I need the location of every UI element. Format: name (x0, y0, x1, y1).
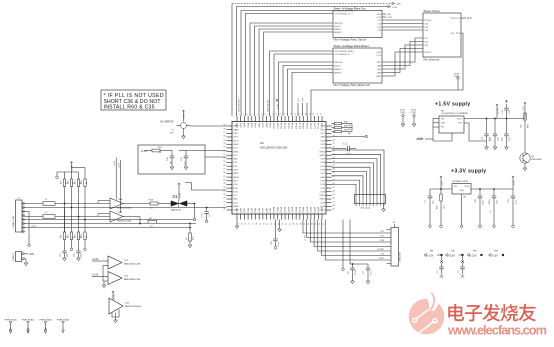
svg-text:+VCC26V0000_PWR_2: +VCC26V0000_PWR_2 (334, 10, 354, 12)
svg-text:+1.5V: +1.5V (427, 254, 434, 257)
svg-text:+3.3V: +3.3V (514, 180, 516, 186)
FPGA U2 body (232, 122, 326, 215)
cap C10 supply (494, 119, 496, 135)
cap C7 supply2 (429, 189, 431, 196)
caps C4 C6 under U2 (343, 220, 368, 269)
gate connector SG block (355, 195, 386, 204)
svg-text:+1.5V: +1.5V (392, 7, 398, 9)
svg-text:C10: C10 (498, 136, 500, 141)
svg-text:C1G: C1G (377, 27, 381, 29)
+3.3V supply rail (430, 188, 452, 190)
U9 left pin stubs (433, 119, 439, 142)
svg-text:OUT_TP16: OUT_TP16 (450, 33, 460, 35)
svg-text:79: 79 (223, 198, 225, 200)
svg-text:C11: C11 (482, 136, 484, 140)
svg-text:IO17A: IO17A (299, 122, 302, 129)
oscillator +3.3V flag (182, 110, 184, 113)
svg-text:VMV1: VMV1 (319, 151, 326, 153)
svg-text:6: 6 (254, 114, 256, 115)
svg-text:AMDLP2310DM: AMDLP2310DM (125, 305, 141, 308)
svg-text:+: + (490, 209, 492, 213)
svg-text:93: 93 (223, 147, 225, 149)
svg-text:EQU2:T: EQU2:T (334, 26, 342, 28)
svg-text:75: 75 (238, 223, 240, 225)
wire R56 to Q3 (524, 120, 526, 152)
svg-text:IO29: IO29 (320, 159, 325, 161)
svg-text:60: 60 (293, 223, 295, 225)
U2 outer pin numbers bottom (238, 223, 325, 225)
svg-text:IO20B: IO20B (311, 206, 313, 213)
+12V flag supply2 (440, 176, 442, 179)
svg-text:G2G: G2G (377, 69, 382, 71)
svg-text:5: 5 (250, 114, 252, 115)
svg-text:IO23B: IO23B (322, 206, 324, 213)
svg-text:220u: 220u (489, 200, 491, 204)
svg-text:IO22B: IO22B (318, 206, 320, 213)
svg-text:0.1u: 0.1u (278, 242, 280, 246)
sheet block Driver (423, 13, 461, 57)
svg-text:+VCC26V0000_CT_2: +VCC26V0000_CT_2 (334, 13, 352, 15)
U12 feedback (112, 310, 119, 318)
svg-text:IO20A: IO20A (310, 122, 313, 129)
svg-text:BAS40-05: BAS40-05 (171, 209, 182, 212)
svg-text:13: 13 (280, 113, 282, 115)
svg-text:C34: C34 (167, 156, 169, 161)
svg-text:C100: C100 (346, 154, 352, 156)
+3.3V flag pullups (70, 162, 72, 165)
svg-text:750: 750 (521, 124, 523, 128)
svg-text:14: 14 (284, 113, 286, 115)
svg-text:IO2B: IO2B (244, 207, 246, 212)
svg-text:+1.5V: +1.5V (523, 105, 525, 111)
svg-text:+12V: +12V (29, 253, 35, 256)
test point TP14 (457, 77, 459, 79)
U2 right pins (326, 126, 332, 210)
svg-text:C?: C? (437, 271, 439, 273)
svg-text:1u: 1u (209, 215, 211, 217)
svg-text:GND: GND (320, 137, 325, 139)
svg-text:+12V: +12V (10, 328, 13, 334)
svg-text:61: 61 (289, 223, 291, 225)
J2 ground (24, 258, 26, 260)
capacitor C17 (206, 208, 208, 212)
svg-text:66: 66 (271, 223, 273, 225)
svg-text:11: 11 (272, 113, 274, 115)
svg-text:Sheet: H-Voltage Plane Bottom: Sheet: H-Voltage Plane Bottom (334, 44, 370, 48)
gate U5B power stub (119, 160, 121, 213)
svg-text:78: 78 (223, 201, 225, 203)
svg-text:98: 98 (223, 128, 225, 130)
svg-text:www.elecfans.com: www.elecfans.com (447, 323, 547, 338)
svg-text:U13: U13 (124, 276, 129, 278)
svg-text:SFIO: SFIO (377, 62, 382, 64)
svg-text:55: 55 (312, 223, 314, 225)
svg-text:IO43: IO43 (233, 191, 238, 193)
svg-text:FB1: FB1 (430, 251, 433, 253)
svg-text:IO15B: IO15B (292, 206, 294, 213)
svg-text:File: H-Voltage_Plane_Bottom.s: File: H-Voltage_Plane_Bottom.sch (334, 84, 371, 87)
svg-text:VOUT: VOUT (457, 119, 463, 121)
svg-text:SWITCH7: SWITCH7 (334, 23, 343, 25)
svg-text:+1.5V: +1.5V (449, 254, 456, 257)
svg-text:+3.3V: +3.3V (114, 294, 116, 300)
svg-text:U9: U9 (441, 111, 445, 113)
svg-text:GND: GND (233, 159, 238, 161)
svg-text:Q3: Q3 (531, 156, 535, 158)
svg-text:IO18B: IO18B (303, 206, 305, 213)
svg-text:+1R5: +1R5 (376, 52, 381, 54)
svg-text:IO11A: IO11A (276, 122, 279, 128)
svg-text:23: 23 (317, 113, 319, 115)
svg-text:TP(R): TP(R) (454, 76, 459, 78)
svg-text:LD1086DT33TR: LD1086DT33TR (452, 181, 468, 183)
U2 top pins (237, 116, 322, 122)
svg-text:70: 70 (256, 223, 258, 225)
svg-text:GEA1: GEA1 (233, 150, 239, 153)
U2 inner pin name fuzz left (233, 125, 240, 212)
driver +1.5V net flag (461, 17, 466, 19)
svg-text:71: 71 (252, 223, 254, 225)
svg-text:U8: U8 (463, 197, 466, 199)
svg-text:T1C: T1C (377, 20, 381, 22)
J2 +12V wire (24, 253, 28, 255)
svg-text:99: 99 (223, 125, 225, 127)
svg-text:C18: C18 (475, 198, 477, 203)
svg-text:85: 85 (223, 176, 225, 178)
svg-text:16: 16 (291, 113, 293, 115)
svg-text:IO39: IO39 (320, 202, 325, 204)
svg-text:SN74LVC2G04: SN74LVC2G04 (117, 207, 132, 209)
svg-text:10: 10 (269, 113, 271, 115)
svg-text:VMV2: VMV2 (319, 195, 326, 197)
svg-text:0u2: 0u2 (193, 236, 195, 240)
svg-text:C7: C7 (425, 200, 427, 203)
svg-text:IO19A: IO19A (306, 122, 309, 129)
wire R14 onward (157, 223, 197, 225)
wires PLL box to U2 (205, 150, 227, 152)
svg-text:L2: L2 (45, 212, 48, 214)
svg-text:IO9A: IO9A (269, 122, 272, 127)
svg-text:CONN_2: CONN_2 (13, 252, 15, 261)
svg-text:+3.3V: +3.3V (27, 327, 30, 334)
svg-text:IO7B: IO7B (263, 207, 265, 212)
svg-text:51: 51 (86, 182, 88, 184)
svg-text:IO51: IO51 (233, 166, 238, 168)
svg-text:10k: 10k (348, 125, 351, 127)
svg-text:PWR_FLAG: PWR_FLAG (57, 319, 69, 322)
svg-text:OSC: OSC (170, 132, 175, 134)
svg-text:C2G: C2G (424, 41, 428, 43)
svg-text:63: 63 (282, 223, 284, 225)
svg-text:95: 95 (223, 139, 225, 141)
wire to terminal right of U2 (332, 136, 366, 138)
capacitor C39 (275, 220, 277, 240)
svg-text:2: 2 (239, 114, 241, 115)
svg-text:TDO: TDO (380, 236, 385, 238)
sheet A left pin labels (334, 10, 354, 34)
svg-text:+1.5V: +1.5V (492, 254, 499, 257)
svg-text:12: 12 (276, 113, 278, 115)
svg-text:IO24: IO24 (320, 140, 325, 142)
svg-text:89: 89 (223, 161, 225, 163)
connector J2 (16, 252, 22, 262)
svg-text:C1B: C1B (377, 30, 381, 32)
svg-text:TP15+1.5V: TP15+1.5V (450, 18, 460, 20)
regulator U9 (439, 116, 464, 133)
svg-text:TDI: TDI (381, 254, 385, 256)
svg-text:1u: 1u (463, 261, 465, 263)
svg-text:IO8A: IO8A (265, 122, 268, 127)
svg-text:+1.5V: +1.5V (305, 235, 307, 241)
svg-text:PWR_FLAG: PWR_FLAG (39, 319, 51, 322)
Q3 ground (524, 163, 526, 168)
svg-text:TRST: TRST (379, 258, 385, 260)
svg-text:File: Driver.sch: File: Driver.sch (424, 59, 440, 62)
svg-text:J7B_pad_R11: J7B_pad_R11 (268, 99, 270, 112)
svg-text:69: 69 (260, 223, 262, 225)
svg-text:IO4A: IO4A (250, 122, 253, 127)
svg-text:U11: U11 (124, 260, 129, 262)
svg-text:30: 30 (333, 139, 335, 141)
svg-text:IO5A: IO5A (254, 122, 257, 127)
svg-text:R32: R32 (344, 130, 347, 132)
svg-text:91: 91 (223, 154, 225, 156)
svg-text:0.1u: 0.1u (516, 200, 518, 204)
svg-text:76: 76 (223, 209, 225, 211)
U2 inner pin name fuzz top (236, 122, 324, 129)
+1.5V stub 1 filter (441, 256, 443, 260)
wire oscillator to U2 (190, 125, 227, 127)
svg-text:38: 38 (333, 169, 335, 171)
U2 bottom pins (237, 214, 322, 220)
wire U5A out to R13 (123, 203, 150, 205)
cap C20 supply2 (493, 189, 495, 196)
svg-text:+1.5V: +1.5V (470, 254, 477, 257)
svg-text:+1.5V: +1.5V (387, 17, 393, 19)
wire driver output to U2 (311, 33, 463, 116)
pullup resistor tails (65, 187, 86, 220)
JTAG top pin (394, 224, 396, 228)
svg-text:20: 20 (306, 113, 308, 115)
svg-text:IO12A: IO12A (280, 122, 283, 129)
U9 right lower pin wire (464, 123, 487, 141)
svg-text:IO6B: IO6B (259, 207, 261, 212)
svg-text:IO12B: IO12B (281, 206, 283, 213)
svg-text:C13: C13 (509, 136, 511, 141)
svg-text:83: 83 (223, 183, 225, 185)
wire J1 pin to +12V node (24, 212, 29, 245)
svg-text:IO16B: IO16B (296, 206, 298, 213)
+1R5 net flag top (392, 2, 395, 4)
svg-text:GAB: GAB (377, 64, 382, 67)
svg-text:UNIQ: UNIQ (376, 76, 381, 78)
svg-text:24: 24 (321, 113, 323, 115)
wire J1 line5 (24, 223, 148, 225)
svg-text:41: 41 (333, 179, 335, 181)
svg-text:EN: EN (441, 127, 444, 129)
svg-text:100u: 100u (483, 201, 485, 205)
svg-text:87: 87 (223, 169, 225, 171)
svg-text:+1.5V: +1.5V (278, 104, 280, 110)
svg-text:1: 1 (236, 114, 238, 115)
svg-text:2.2u: 2.2u (502, 137, 504, 141)
svg-text:IO0A: IO0A (236, 122, 239, 127)
svg-text:73: 73 (245, 223, 247, 225)
svg-text:C4: C4 (363, 271, 365, 274)
svg-text:TP(R): TP(R) (400, 112, 405, 114)
svg-text:96: 96 (223, 136, 225, 138)
ground stub right of U2 bottom (383, 204, 385, 210)
svg-text:IO3B: IO3B (248, 207, 250, 212)
svg-text:AMDLA321CDM: AMDLA321CDM (124, 263, 140, 266)
svg-text:IO31: IO31 (320, 166, 325, 168)
svg-text:C2L: C2L (424, 38, 427, 40)
svg-text:PWR_FLAG: PWR_FLAG (4, 319, 16, 322)
gate U5A input jog (98, 201, 110, 204)
svg-text:ASSET6: ASSET6 (334, 71, 341, 74)
svg-text:R5?: R5? (437, 204, 439, 209)
PLL grounds (170, 167, 174, 170)
svg-text:IO9B: IO9B (270, 207, 272, 212)
JTAG header J3 (391, 228, 399, 267)
svg-text:IO11B: IO11B (277, 206, 279, 212)
wires U2 to JTAG header (303, 220, 387, 261)
svg-text:+12V: +12V (442, 181, 444, 186)
op-amp U13 (108, 272, 122, 285)
driver right pin labels (450, 18, 460, 35)
svg-text:VP2: VP2 (303, 98, 305, 101)
svg-text:VJ1: VJ1 (298, 98, 300, 101)
svg-text:IO3A: IO3A (247, 122, 250, 127)
svg-text:+3.3V: +3.3V (92, 273, 99, 276)
wire J1 line1 (24, 203, 43, 205)
+1.5V net stub 2 (446, 254, 449, 257)
svg-text:L5: L5 (186, 237, 188, 240)
svg-text:VIN: VIN (454, 186, 458, 188)
sheet A right pin labels (376, 14, 382, 32)
svg-text:SWITCH6: SWITCH6 (334, 62, 343, 64)
svg-text:33: 33 (333, 150, 335, 152)
wire bundle sheet B to U2 (270, 51, 334, 116)
svg-text:AMDLA321CDM: AMDLA321CDM (124, 278, 140, 281)
svg-text:R55: R55 (158, 147, 163, 149)
short stub wires above U2 (298, 103, 307, 116)
svg-text:40: 40 (333, 176, 335, 178)
svg-text:File: H-Voltage_Plane_Top.sch: File: H-Voltage_Plane_Top.sch (334, 39, 367, 42)
U13 ground (103, 281, 105, 285)
U12 +3.3V flag (112, 291, 114, 294)
svg-text:IO32: IO32 (320, 170, 325, 172)
svg-text:R23: R23 (75, 235, 77, 238)
svg-text:IO38: IO38 (320, 191, 325, 193)
svg-text:45: 45 (333, 194, 335, 196)
resistor R56 (524, 113, 526, 119)
+1.5V net stub 1 (424, 254, 427, 257)
svg-text:GND: GND (320, 177, 325, 179)
svg-text:+1.5V: +1.5V (376, 55, 382, 57)
wire J1 line6 (24, 227, 190, 229)
svg-text:IO52: IO52 (233, 162, 238, 164)
regulator U8 (452, 184, 471, 195)
junction dots pullups (64, 203, 66, 205)
svg-text:10k: 10k (348, 133, 351, 135)
+1.5V flag above U2 (276, 99, 278, 102)
U9 bottom feedback wire (433, 133, 452, 141)
sheet B left pin labels (334, 51, 354, 75)
svg-text:IO0B: IO0B (237, 207, 239, 212)
svg-text:IO59: IO59 (233, 137, 238, 139)
svg-text:C39: C39 (271, 240, 273, 245)
svg-text:GND: GND (441, 123, 446, 125)
svg-text:IO35: IO35 (320, 180, 325, 182)
svg-text:47: 47 (333, 201, 335, 203)
svg-text:+1.5V: +1.5V (45, 327, 48, 334)
watermark logo (409, 291, 445, 334)
J1 pins (22, 202, 24, 232)
svg-text:R21: R21 (61, 235, 63, 238)
svg-text:0.1u: 0.1u (343, 144, 347, 146)
gate U5A power stub (115, 158, 117, 200)
svg-text:C12: C12 (509, 109, 511, 114)
wires U2 bottom stubs (237, 220, 280, 230)
svg-text:IO60: IO60 (233, 133, 238, 135)
cap C11 supply (486, 119, 488, 135)
svg-text:+1.5V supply: +1.5V supply (435, 102, 470, 108)
svg-text:GEC1: GEC1 (233, 140, 240, 142)
svg-text:IO36: IO36 (320, 184, 325, 186)
svg-text:10u: 10u (433, 201, 435, 204)
svg-text:56: 56 (308, 223, 310, 225)
D1 +3.3V stub (178, 186, 180, 200)
svg-text:IO37: IO37 (320, 188, 325, 190)
cap C18 supply2 (479, 189, 481, 196)
svg-text:IO15A: IO15A (291, 122, 294, 129)
svg-text:0.01u: 0.01u (355, 270, 357, 275)
svg-text:OC-436PCE: OC-436PCE (160, 121, 174, 124)
svg-text:SAGE:N: SAGE:N (334, 68, 342, 71)
svg-text:9: 9 (265, 114, 267, 115)
svg-text:+1.5V: +1.5V (498, 108, 500, 114)
resistors R30-R32 (332, 123, 335, 125)
svg-text:GND5: GND5 (233, 177, 240, 179)
svg-text:+3.3V: +3.3V (72, 165, 74, 171)
svg-text:CONN_5X2R: CONN_5X2R (13, 215, 15, 228)
svg-text:FB2: FB2 (452, 251, 455, 253)
svg-text:R22: R22 (68, 235, 70, 238)
svg-text:C1B: C1B (424, 30, 428, 32)
svg-text:JTAG-ICE: JTAG-ICE (399, 252, 402, 262)
watermark text (448, 304, 536, 322)
svg-text:+1R: +1R (387, 14, 391, 16)
wire L2 to gate U5B (55, 216, 98, 218)
svg-text:VOUT: VOUT (464, 186, 470, 188)
PLL cap C34 (171, 151, 173, 157)
svg-text:R56: R56 (528, 123, 530, 128)
ground under U2 bottom mid (278, 229, 282, 232)
svg-text:C15: C15 (74, 254, 76, 257)
svg-text:80: 80 (223, 194, 225, 196)
svg-text:10: 10 (159, 152, 162, 154)
svg-text:IO13A: IO13A (284, 122, 287, 129)
svg-text:+3.3V: +3.3V (114, 160, 116, 166)
JTAG signal labels (377, 231, 385, 260)
svg-text:57: 57 (304, 223, 306, 225)
svg-text:VMV5: VMV5 (233, 173, 240, 175)
svg-text:88: 88 (223, 165, 225, 167)
inductor L5 (189, 224, 191, 234)
svg-text:IO7A: IO7A (262, 122, 265, 127)
wire L1 to gate U5A (55, 203, 98, 205)
